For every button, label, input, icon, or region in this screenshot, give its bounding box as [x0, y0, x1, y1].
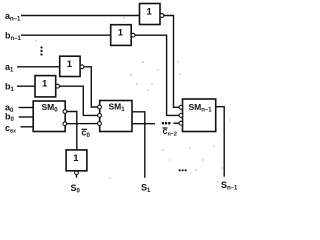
inverter U1 output bubble: [160, 14, 164, 18]
svg-text:1: 1: [73, 153, 79, 164]
svg-text:1: 1: [67, 59, 73, 70]
overbar of c_n-2-bar: [163, 127, 168, 129]
wire inverter U4 output to SM_1 pin2: [59, 86, 97, 115]
wire b_1 input: [17, 85, 35, 87]
wire S_0 stub below inverter U5: [76, 175, 78, 178]
SM_n-1 input bubble pin2: [179, 114, 183, 118]
wire c_in input: [21, 126, 34, 128]
SM_1 box: [100, 101, 132, 132]
vertical ellipsis between b_n-1 and a_1: [40, 46, 42, 55]
wire c_n-2 into SM_n-1 pin3: [173, 122, 179, 124]
wire S0-bar from SM_0 to inverter U5: [67, 112, 77, 150]
wire a_1 input: [17, 66, 60, 68]
svg-text:1: 1: [118, 28, 124, 39]
inverter U4 (b_1) box: [35, 76, 56, 97]
wire a_n-1 input: [21, 15, 140, 17]
inverter U2 output bubble: [131, 33, 135, 37]
SM_1 input bubble pin3: [98, 122, 102, 126]
svg-text:1: 1: [42, 79, 48, 90]
wire b_n-1 input: [21, 34, 111, 36]
ellipsis on carry line before SM_n-1: [162, 122, 171, 124]
SM_n-1 box: [183, 99, 216, 132]
wire a_0 input: [19, 107, 34, 109]
SM_n-1 input bubble pin3: [179, 121, 183, 125]
inverter U4 output bubble: [56, 84, 60, 88]
ellipsis between S_1 and S_n-1: [179, 169, 187, 171]
SM_n-1 input bubble pin1: [179, 105, 183, 109]
overbar of c0-bar: [82, 128, 88, 130]
SM_0 box: [33, 101, 65, 132]
inverter U3 output bubble: [80, 65, 84, 69]
inverter U3 (a_1) box: [60, 56, 80, 76]
inverter U2 (b_n-1) box: [111, 25, 132, 46]
wire b_0 input: [19, 116, 34, 118]
SM_1 input bubble pin1: [98, 105, 102, 109]
inverter U5 (S_0) box: [66, 150, 87, 171]
wire S_1 from SM_1: [132, 112, 145, 178]
SM_0 output bubble c0-bar: [63, 122, 67, 126]
inverter U1 (a_n-1) box: [140, 4, 161, 25]
inverter U5 output bubble: [75, 171, 79, 175]
wire carry out of SM_1: [132, 123, 155, 125]
SM_1 input bubble pin2: [98, 114, 102, 118]
wire S_n-1 from SM_n-1: [216, 107, 225, 177]
wire inverter U1 output to SM_n-1 pin1: [164, 16, 179, 108]
svg-text:1: 1: [147, 7, 153, 18]
wire inverter U2 output to SM_n-1 pin2: [135, 35, 179, 115]
wire c0-bar from SM_0 to SM_1 pin3: [67, 123, 98, 125]
wire inverter U3 output to SM_1 pin1: [84, 67, 98, 107]
SM_0 output bubble S0-bar: [63, 110, 67, 114]
